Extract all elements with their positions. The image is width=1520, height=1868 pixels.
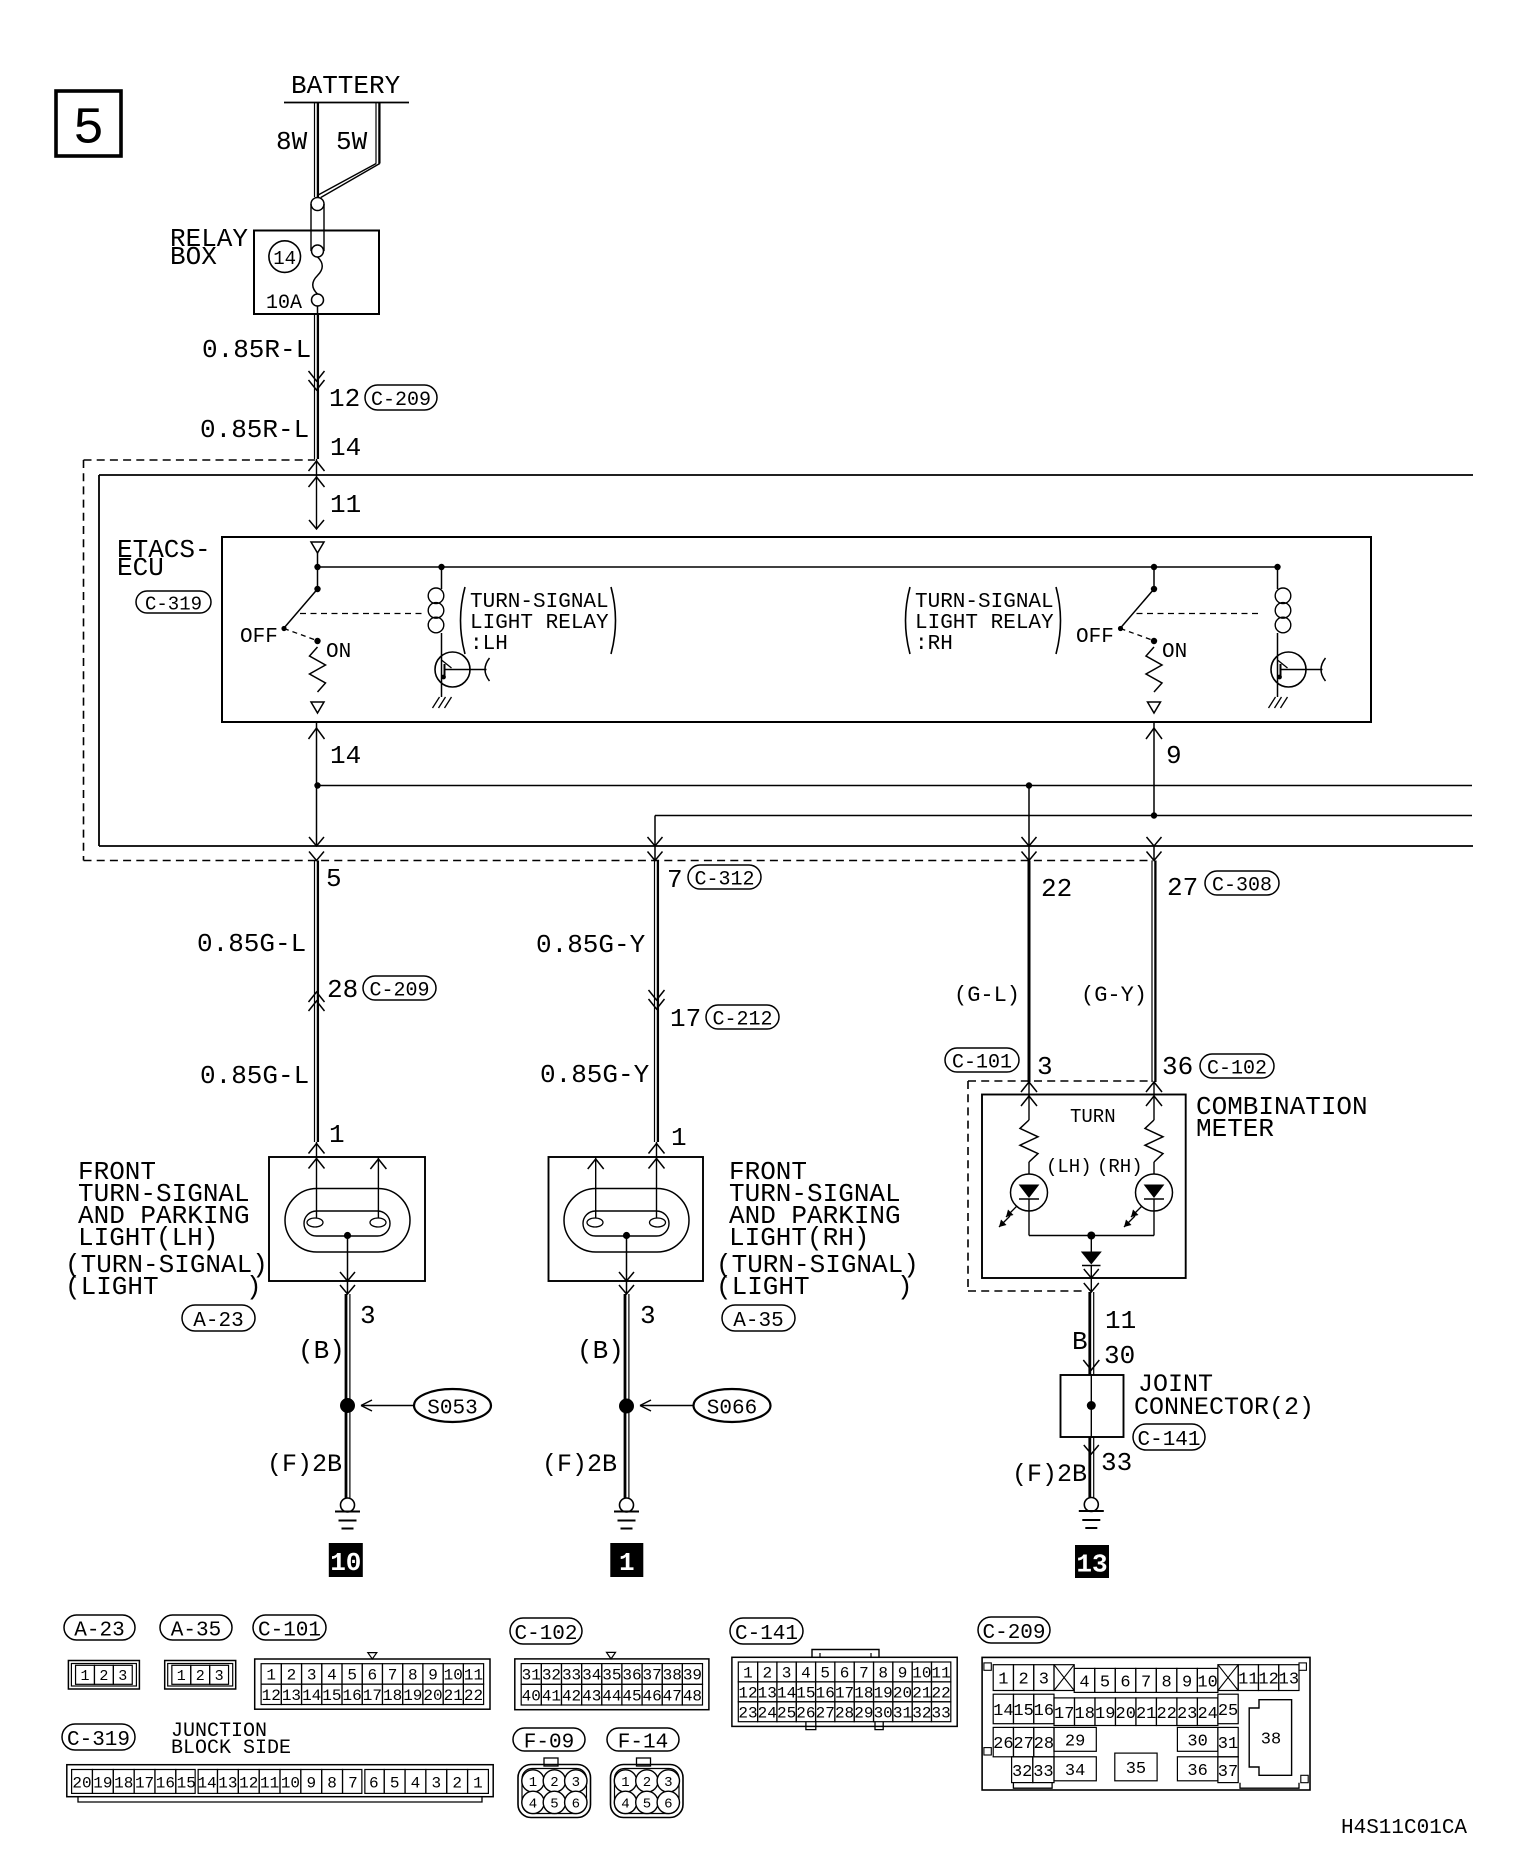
svg-text:1: 1 [329,1120,345,1150]
svg-text:BATTERY: BATTERY [291,71,401,101]
svg-text:42: 42 [562,1687,581,1705]
svg-text:23: 23 [1177,1705,1197,1724]
svg-text:METER: METER [1196,1114,1274,1144]
svg-text:C-212: C-212 [712,1009,772,1032]
svg-text:8: 8 [327,1774,337,1792]
svg-text:32: 32 [912,1705,931,1723]
svg-text:20: 20 [423,1687,442,1705]
svg-text:13: 13 [218,1774,237,1792]
svg-text:17: 17 [1054,1705,1074,1724]
svg-text:LIGHT(LH): LIGHT(LH) [78,1223,218,1253]
svg-text:(F)2B: (F)2B [267,1450,342,1479]
svg-text:44: 44 [602,1687,621,1705]
svg-text:40: 40 [522,1687,541,1705]
svg-text:9: 9 [898,1665,908,1683]
svg-text:(LH): (LH) [1046,1156,1092,1178]
svg-text:10A: 10A [266,292,302,315]
svg-text:C-209: C-209 [982,1622,1045,1645]
svg-text:28: 28 [835,1705,854,1723]
svg-text:14: 14 [330,741,361,771]
svg-text::LH: :LH [470,633,508,656]
svg-text:27: 27 [1013,1735,1033,1754]
svg-text:11: 11 [1105,1306,1136,1336]
svg-text:27: 27 [816,1705,835,1723]
svg-text:33: 33 [1101,1448,1132,1478]
svg-text:(G-Y): (G-Y) [1081,983,1147,1008]
svg-text:5: 5 [326,864,342,894]
svg-text:BOX: BOX [170,242,217,272]
svg-text:28: 28 [1034,1735,1054,1754]
svg-text:13: 13 [282,1687,301,1705]
svg-text:19: 19 [403,1687,422,1705]
svg-text:6: 6 [1120,1674,1130,1693]
svg-text:(LIGHT: (LIGHT [65,1272,159,1302]
svg-text:11: 11 [260,1774,279,1792]
svg-text:34: 34 [1065,1762,1085,1781]
svg-text:2: 2 [196,1668,205,1685]
svg-text:11: 11 [464,1667,483,1685]
svg-text:5W: 5W [336,127,368,157]
svg-text:A-23: A-23 [74,1620,124,1643]
svg-text:C-102: C-102 [1207,1058,1267,1081]
svg-text:12: 12 [1258,1671,1278,1690]
svg-text:24: 24 [1197,1705,1217,1724]
svg-text:C-312: C-312 [694,869,754,892]
svg-text:3: 3 [431,1774,441,1792]
svg-text:5: 5 [550,1796,558,1812]
svg-text:20: 20 [1116,1705,1136,1724]
svg-text:BLOCK SIDE: BLOCK SIDE [171,1737,291,1760]
svg-text:14: 14 [273,248,296,270]
svg-text:S053: S053 [427,1398,477,1421]
svg-text:14: 14 [993,1702,1013,1721]
svg-text:2: 2 [643,1775,651,1791]
svg-text:16: 16 [816,1685,835,1703]
svg-text:4: 4 [621,1796,629,1812]
svg-text:17: 17 [670,1004,701,1034]
svg-text:10: 10 [444,1667,463,1685]
svg-text:22: 22 [464,1687,483,1705]
svg-text:(F)2B: (F)2B [1012,1460,1087,1489]
svg-text:3: 3 [572,1775,580,1791]
svg-text:1: 1 [529,1775,537,1791]
svg-text:22: 22 [1041,874,1072,904]
svg-text:3: 3 [360,1301,376,1331]
svg-text:24: 24 [758,1705,777,1723]
svg-text:A-23: A-23 [193,1310,243,1333]
svg-text:16: 16 [1034,1702,1054,1721]
svg-text:14: 14 [777,1685,796,1703]
svg-text:LIGHT RELAY: LIGHT RELAY [470,612,609,635]
svg-text:39: 39 [683,1667,702,1685]
svg-text:2: 2 [287,1667,297,1685]
svg-text:TURN-SIGNAL: TURN-SIGNAL [470,591,609,614]
svg-text:2: 2 [762,1665,772,1683]
svg-text:C-209: C-209 [371,389,431,412]
svg-text:12: 12 [239,1774,258,1792]
svg-text:1: 1 [80,1668,89,1685]
svg-text:43: 43 [582,1687,601,1705]
svg-text:37: 37 [1218,1763,1238,1782]
svg-text:0.85R-L: 0.85R-L [202,335,311,365]
svg-text:20: 20 [72,1774,91,1792]
svg-text:48: 48 [683,1687,702,1705]
svg-text:C-209: C-209 [369,980,429,1003]
svg-text:1: 1 [177,1668,186,1685]
svg-text:3: 3 [1037,1052,1053,1082]
svg-text:14: 14 [197,1774,216,1792]
svg-text:10: 10 [281,1774,300,1792]
svg-text:38: 38 [663,1667,682,1685]
svg-text:LIGHT RELAY: LIGHT RELAY [915,612,1054,635]
svg-text:7: 7 [667,865,683,895]
svg-text:11: 11 [330,490,361,520]
svg-text:B: B [1072,1327,1088,1357]
svg-text:C-308: C-308 [1212,875,1272,898]
svg-text:15: 15 [1013,1702,1033,1721]
svg-text:1: 1 [998,1671,1008,1690]
svg-text:0.85R-L: 0.85R-L [200,415,309,445]
svg-text:15: 15 [177,1774,196,1792]
svg-text:22: 22 [932,1685,951,1703]
svg-text:F-09: F-09 [524,1732,574,1755]
svg-text:7: 7 [1141,1674,1151,1693]
svg-text:LIGHT(RH): LIGHT(RH) [729,1223,869,1253]
svg-text:30: 30 [874,1705,893,1723]
svg-text:26: 26 [993,1735,1013,1754]
svg-text:S066: S066 [707,1398,757,1421]
svg-text:21: 21 [912,1685,931,1703]
svg-text:8: 8 [408,1667,418,1685]
svg-text:CONNECTOR(2): CONNECTOR(2) [1134,1393,1314,1422]
svg-text:3: 3 [640,1301,656,1331]
svg-text:3: 3 [118,1668,127,1685]
svg-text:17: 17 [835,1685,854,1703]
svg-text:(LIGHT: (LIGHT [716,1272,810,1302]
svg-text:0.85G-Y: 0.85G-Y [540,1060,650,1090]
svg-text:C-101: C-101 [258,1620,321,1643]
svg-text:13: 13 [758,1685,777,1703]
svg-text:30: 30 [1187,1732,1207,1751]
svg-text:12: 12 [738,1685,757,1703]
svg-text:3: 3 [307,1667,317,1685]
svg-text:7: 7 [388,1667,398,1685]
svg-text:29: 29 [854,1705,873,1723]
svg-text:7: 7 [348,1774,358,1792]
svg-text:31: 31 [522,1667,541,1685]
svg-text:6: 6 [572,1796,580,1812]
svg-text:36: 36 [1187,1762,1207,1781]
svg-text:(B): (B) [577,1336,624,1366]
svg-text:C-319: C-319 [67,1729,130,1752]
svg-text:ON: ON [1162,641,1187,664]
svg-text:8: 8 [878,1665,888,1683]
svg-text:41: 41 [542,1687,561,1705]
svg-text:C-102: C-102 [514,1623,577,1646]
svg-text:32: 32 [542,1667,561,1685]
svg-text:18: 18 [383,1687,402,1705]
svg-text:9: 9 [428,1667,438,1685]
svg-text:10: 10 [912,1665,931,1683]
svg-text:5: 5 [1100,1674,1110,1693]
svg-text:18: 18 [854,1685,873,1703]
svg-text:18: 18 [1075,1705,1095,1724]
svg-text:(F)2B: (F)2B [542,1450,617,1479]
svg-text:13: 13 [1279,1671,1299,1690]
svg-text:4: 4 [529,1796,537,1812]
svg-text:10: 10 [1197,1674,1217,1693]
svg-text:19: 19 [1095,1705,1115,1724]
svg-text:14: 14 [330,433,361,463]
svg-text:9: 9 [1166,741,1182,771]
svg-text:2: 2 [452,1774,462,1792]
svg-text:11: 11 [932,1665,951,1683]
svg-text:1: 1 [619,1548,635,1578]
svg-text:3: 3 [782,1665,792,1683]
svg-text:0.85G-L: 0.85G-L [200,1061,309,1091]
svg-text:25: 25 [777,1705,796,1723]
svg-text:20: 20 [893,1685,912,1703]
svg-text:10: 10 [330,1548,361,1578]
svg-text:4: 4 [411,1774,421,1792]
svg-text:23: 23 [738,1705,757,1723]
svg-text:19: 19 [93,1774,112,1792]
svg-text:C-141: C-141 [1137,1429,1200,1452]
svg-text:(RH): (RH) [1097,1156,1143,1178]
svg-text:4: 4 [1079,1674,1089,1693]
svg-text:H4S11C01CA: H4S11C01CA [1341,1817,1467,1840]
svg-text:16: 16 [343,1687,362,1705]
svg-text:0.85G-Y: 0.85G-Y [536,930,646,960]
svg-text:7: 7 [859,1665,869,1683]
svg-text:31: 31 [893,1705,912,1723]
svg-text:32: 32 [1012,1763,1032,1782]
svg-text:17: 17 [135,1774,154,1792]
svg-text:47: 47 [663,1687,682,1705]
svg-text:1: 1 [266,1667,276,1685]
svg-text:28: 28 [327,975,358,1005]
svg-text:35: 35 [1126,1760,1146,1779]
svg-text:C-101: C-101 [952,1052,1012,1075]
svg-text:31: 31 [1218,1735,1238,1754]
svg-text:5: 5 [73,100,104,159]
svg-text:38: 38 [1261,1731,1281,1750]
svg-text:33: 33 [932,1705,951,1723]
svg-text:15: 15 [796,1685,815,1703]
svg-text:(G-L): (G-L) [954,983,1020,1008]
svg-text:16: 16 [156,1774,175,1792]
svg-text:6: 6 [840,1665,850,1683]
svg-text:): ) [246,1272,262,1302]
svg-text:25: 25 [1218,1702,1238,1721]
svg-text:19: 19 [874,1685,893,1703]
svg-text:2: 2 [550,1775,558,1791]
svg-text:26: 26 [796,1705,815,1723]
svg-text:22: 22 [1156,1705,1176,1724]
svg-text:A-35: A-35 [171,1620,221,1643]
svg-text:ECU: ECU [117,553,164,583]
svg-text:37: 37 [643,1667,662,1685]
svg-text:18: 18 [114,1774,133,1792]
svg-text:6: 6 [664,1796,672,1812]
svg-text:21: 21 [1136,1705,1156,1724]
svg-text:9: 9 [1182,1674,1192,1693]
svg-text:2: 2 [1018,1671,1028,1690]
svg-text:45: 45 [622,1687,641,1705]
svg-text:3: 3 [664,1775,672,1791]
svg-text:9: 9 [306,1774,316,1792]
svg-text:1: 1 [473,1774,483,1792]
svg-text:6: 6 [369,1774,379,1792]
svg-text:36: 36 [1162,1052,1193,1082]
svg-text:ON: ON [326,641,351,664]
svg-text:30: 30 [1104,1341,1135,1371]
svg-text:29: 29 [1065,1732,1085,1751]
svg-text:8: 8 [1161,1674,1171,1693]
svg-text:12: 12 [262,1687,281,1705]
svg-text:33: 33 [562,1667,581,1685]
svg-text:5: 5 [347,1667,357,1685]
svg-text:11: 11 [1238,1671,1258,1690]
svg-text:17: 17 [363,1687,382,1705]
svg-text:15: 15 [322,1687,341,1705]
svg-text:3: 3 [1039,1671,1049,1690]
svg-text:TURN: TURN [1070,1106,1116,1128]
svg-text:5: 5 [390,1774,400,1792]
svg-text:(B): (B) [298,1336,345,1366]
svg-text:34: 34 [582,1667,601,1685]
svg-text:): ) [897,1272,913,1302]
svg-text:1: 1 [743,1665,753,1683]
svg-text:C-141: C-141 [735,1623,798,1646]
svg-text:0.85G-L: 0.85G-L [197,929,306,959]
svg-text:3: 3 [215,1668,224,1685]
svg-text:4: 4 [327,1667,337,1685]
svg-text:46: 46 [643,1687,662,1705]
svg-text:36: 36 [622,1667,641,1685]
svg-text:27: 27 [1167,873,1198,903]
svg-text:13: 13 [1076,1549,1107,1579]
svg-text:21: 21 [444,1687,463,1705]
svg-text::RH: :RH [915,633,953,656]
svg-text:C-319: C-319 [145,593,202,615]
svg-text:14: 14 [302,1687,321,1705]
svg-text:33: 33 [1033,1763,1053,1782]
svg-text:6: 6 [368,1667,378,1685]
svg-text:F-14: F-14 [618,1732,668,1755]
svg-text:5: 5 [643,1796,651,1812]
svg-text:35: 35 [602,1667,621,1685]
svg-text:A-35: A-35 [733,1310,783,1333]
svg-text:OFF: OFF [240,626,278,649]
svg-text:8W: 8W [276,127,308,157]
svg-text:12: 12 [329,384,360,414]
svg-text:1: 1 [621,1775,629,1791]
svg-text:2: 2 [99,1668,108,1685]
svg-text:4: 4 [801,1665,811,1683]
svg-text:1: 1 [671,1123,687,1153]
svg-text:TURN-SIGNAL: TURN-SIGNAL [915,591,1054,614]
svg-text:5: 5 [820,1665,830,1683]
svg-text:OFF: OFF [1076,626,1114,649]
